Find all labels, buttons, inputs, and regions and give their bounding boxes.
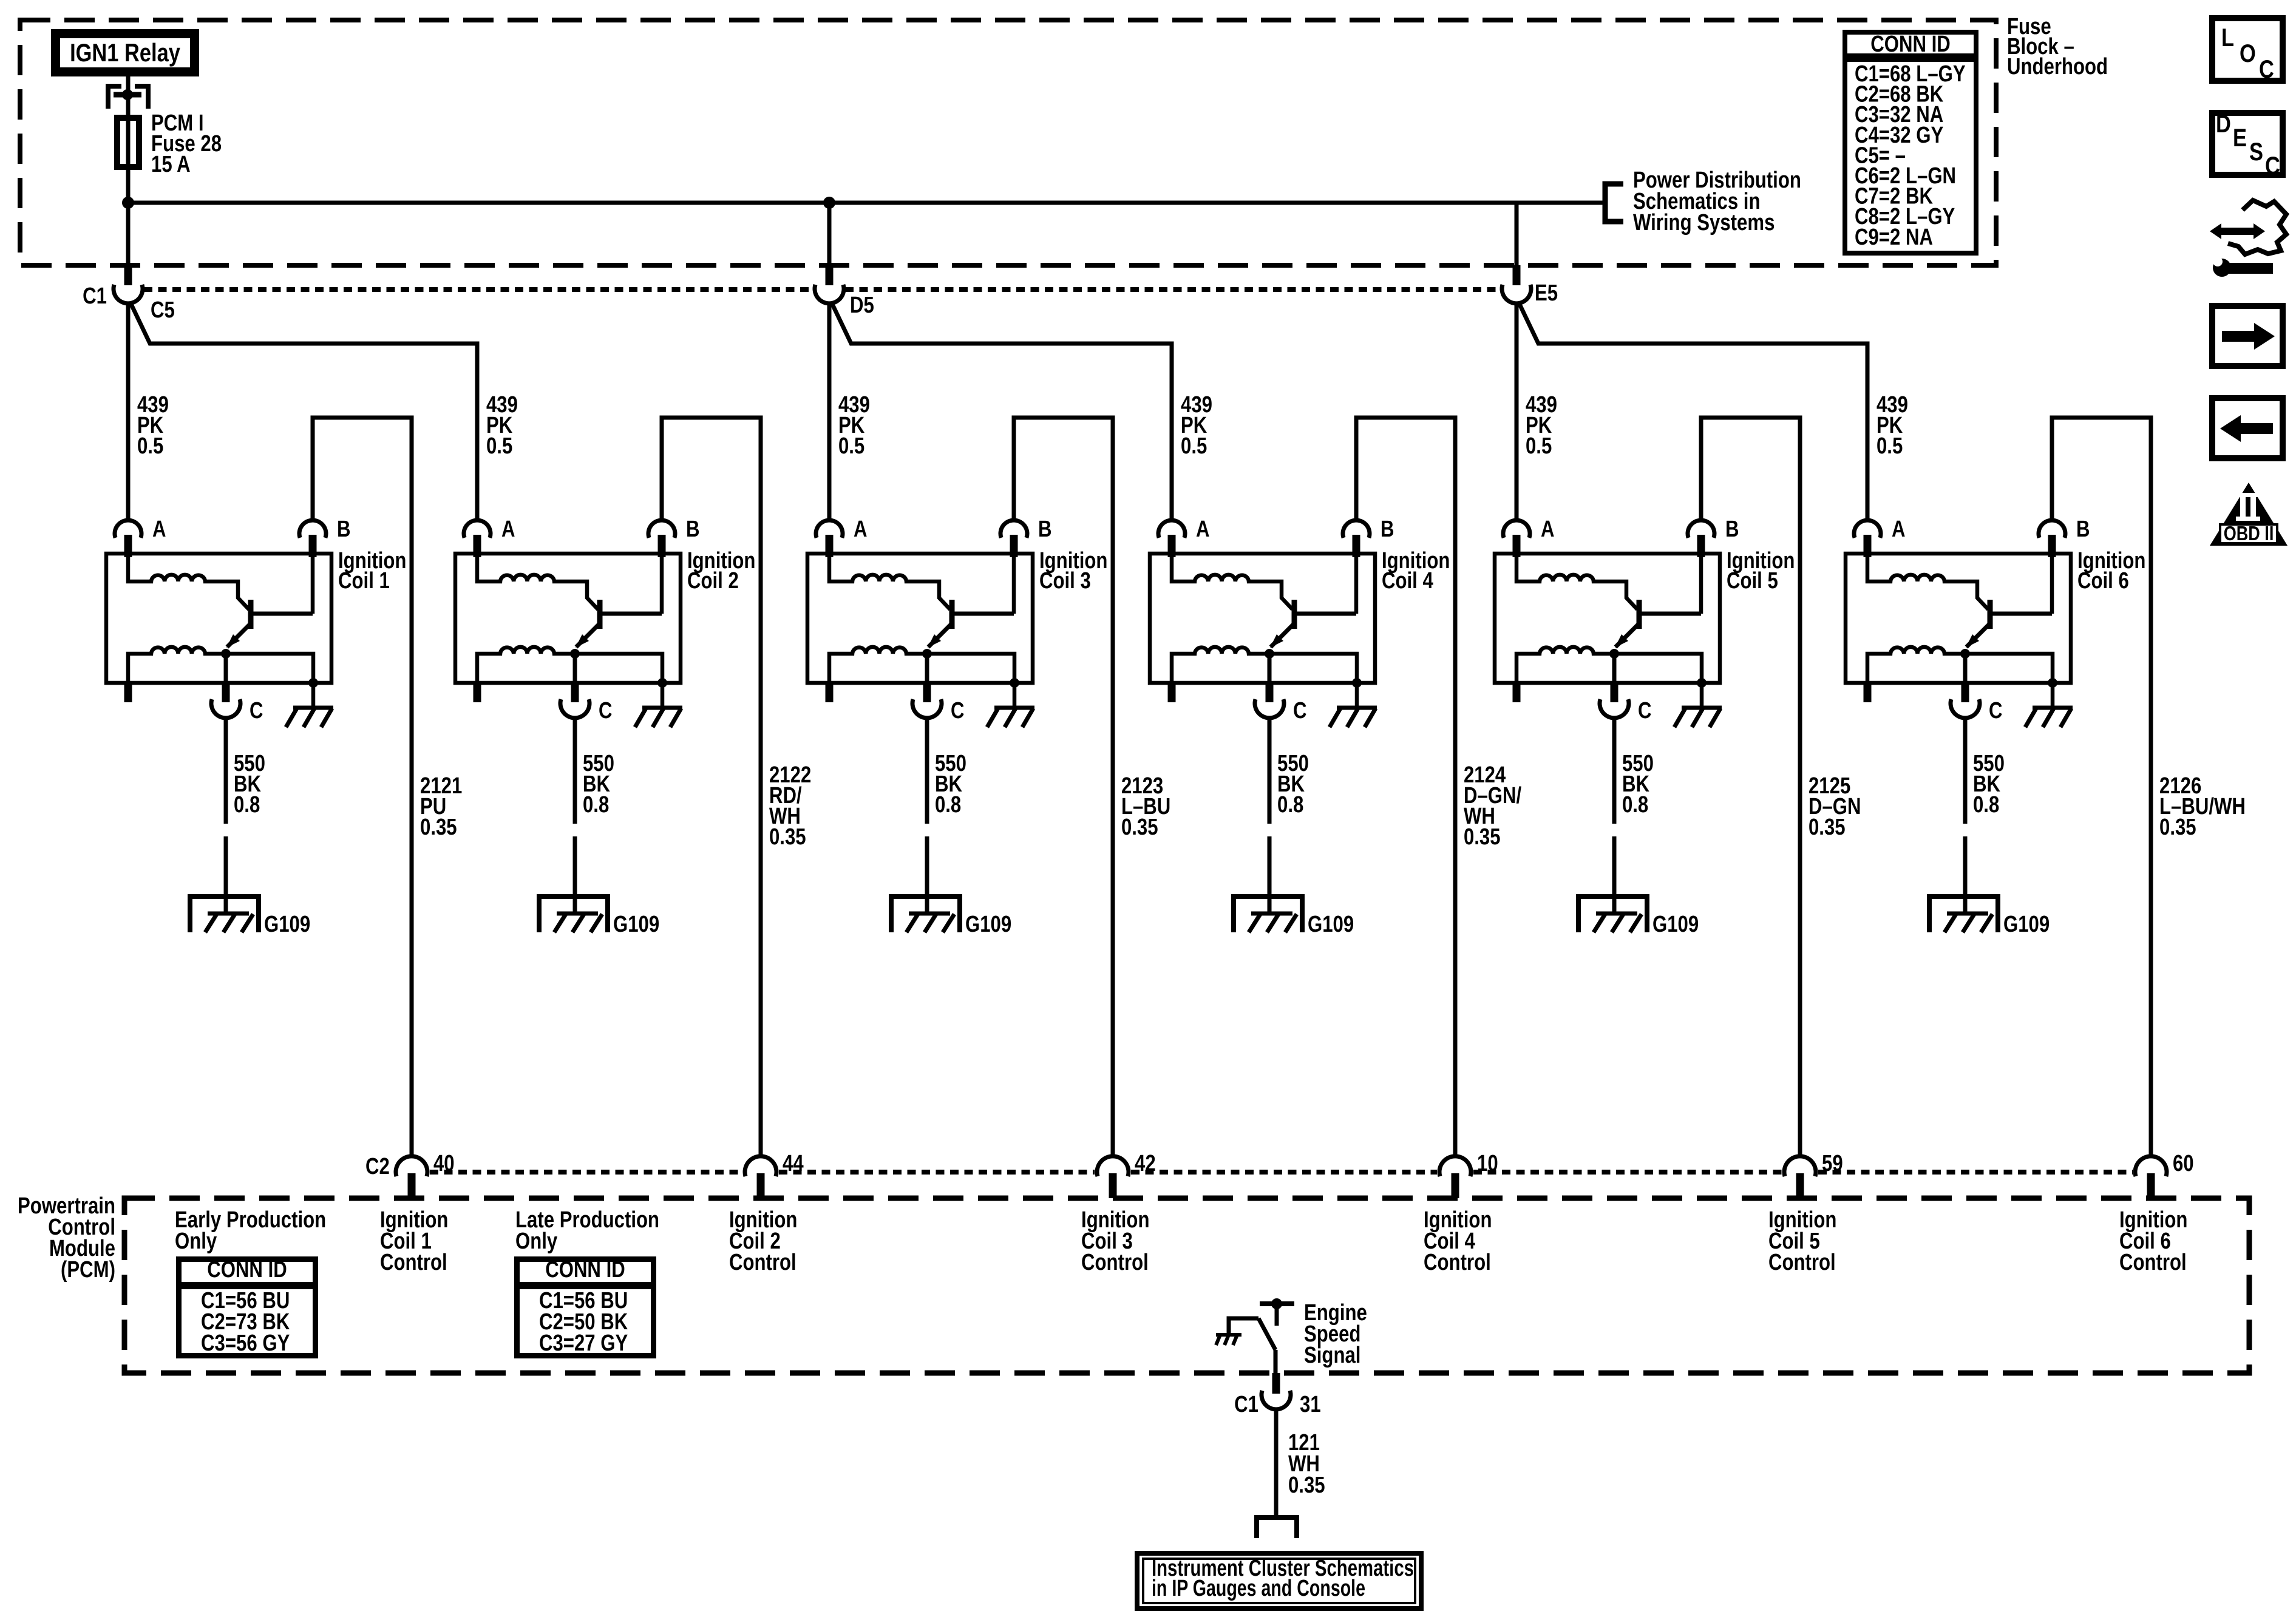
svg-text:0.8: 0.8 [1973,792,1999,818]
svg-text:15 A: 15 A [151,152,191,177]
svg-text:B: B [1725,517,1739,542]
svg-text:D: D [2216,110,2231,138]
svg-text:C5: C5 [151,297,175,323]
svg-text:O: O [2240,39,2256,68]
svg-text:0.35: 0.35 [420,815,457,840]
svg-text:A: A [1541,517,1555,542]
svg-text:0.35: 0.35 [1464,824,1501,850]
svg-text:10: 10 [1477,1151,1498,1176]
svg-text:C: C [1638,698,1652,724]
svg-text:E: E [2233,124,2247,152]
svg-text:B: B [337,517,351,542]
svg-text:C: C [951,698,965,724]
svg-text:0.5: 0.5 [838,433,864,459]
svg-text:G109: G109 [264,912,310,937]
svg-text:0.8: 0.8 [935,792,961,818]
svg-text:A: A [1892,517,1906,542]
svg-text:C: C [1293,698,1307,724]
svg-text:E5: E5 [1535,280,1558,306]
svg-text:0.8: 0.8 [1622,792,1648,818]
svg-text:B: B [1038,517,1052,542]
svg-text:G109: G109 [965,912,1011,937]
svg-text:Coil 2: Coil 2 [687,568,739,594]
svg-text:59: 59 [1822,1151,1843,1176]
svg-text:0.8: 0.8 [1277,792,1303,818]
svg-text:Coil 5: Coil 5 [1727,568,1778,594]
svg-text:C1: C1 [83,283,107,309]
svg-text:OBD II: OBD II [2224,523,2274,545]
svg-text:G109: G109 [1308,912,1354,937]
svg-text:G109: G109 [613,912,659,937]
svg-text:Only: Only [515,1229,558,1254]
svg-text:C2: C2 [365,1154,390,1179]
svg-text:0.8: 0.8 [583,792,609,818]
svg-text:0.35: 0.35 [769,824,806,850]
svg-text:C1: C1 [1234,1392,1258,1417]
svg-text:S: S [2249,138,2263,166]
svg-text:CONN ID: CONN ID [1870,32,1951,57]
svg-text:(PCM): (PCM) [61,1257,115,1283]
svg-text:Only: Only [175,1229,217,1254]
svg-text:44: 44 [783,1151,804,1176]
svg-text:Control: Control [1424,1250,1491,1275]
svg-text:0.5: 0.5 [137,433,163,459]
svg-text:Underhood: Underhood [2007,54,2108,80]
svg-text:Control: Control [1081,1250,1149,1275]
svg-text:31: 31 [1300,1392,1321,1417]
svg-text:B: B [686,517,700,542]
svg-text:0.35: 0.35 [2159,815,2196,840]
svg-text:0.35: 0.35 [1809,815,1846,840]
svg-text:D5: D5 [850,293,874,318]
svg-text:IGN1 Relay: IGN1 Relay [70,39,180,67]
svg-text:Coil 1: Coil 1 [338,568,390,594]
svg-text:0.5: 0.5 [486,433,512,459]
svg-text:A: A [152,517,166,542]
svg-text:G109: G109 [1652,912,1699,937]
svg-text:Coil 4: Coil 4 [1382,568,1433,594]
svg-text:0.5: 0.5 [1526,433,1552,459]
svg-text:60: 60 [2173,1151,2194,1176]
svg-text:0.35: 0.35 [1288,1473,1325,1498]
svg-text:Coil 3: Coil 3 [1039,568,1091,594]
svg-text:C: C [2265,152,2280,180]
svg-text:C9=2 NA: C9=2 NA [1855,225,1933,250]
svg-text:0.5: 0.5 [1181,433,1207,459]
svg-text:C3=27 GY: C3=27 GY [539,1331,628,1356]
svg-text:C: C [2259,55,2274,84]
svg-text:CONN ID: CONN ID [545,1257,625,1283]
svg-text:C: C [250,698,263,724]
svg-text:C3=56 GY: C3=56 GY [201,1331,290,1356]
svg-text:40: 40 [433,1151,455,1176]
svg-text:Control: Control [380,1250,447,1275]
svg-text:A: A [1196,517,1210,542]
svg-text:0.35: 0.35 [1121,815,1158,840]
svg-text:B: B [1381,517,1394,542]
svg-text:42: 42 [1135,1151,1156,1176]
svg-text:Wiring Systems: Wiring Systems [1633,210,1775,236]
svg-text:Signal: Signal [1304,1343,1360,1368]
svg-text:C: C [1989,698,2003,724]
svg-text:Control: Control [729,1250,796,1275]
svg-text:Coil 6: Coil 6 [2077,568,2129,594]
svg-text:G109: G109 [2003,912,2050,937]
svg-text:A: A [501,517,515,542]
svg-text:A: A [854,517,868,542]
svg-text:0.8: 0.8 [234,792,260,818]
svg-text:L: L [2221,24,2234,52]
svg-text:C: C [599,698,613,724]
svg-text:CONN ID: CONN ID [207,1257,287,1283]
svg-text:Control: Control [2119,1250,2187,1275]
svg-text:B: B [2076,517,2090,542]
svg-text:Control: Control [1768,1250,1836,1275]
svg-text:in IP Gauges and Console: in IP Gauges and Console [1152,1576,1365,1601]
svg-text:0.5: 0.5 [1877,433,1903,459]
